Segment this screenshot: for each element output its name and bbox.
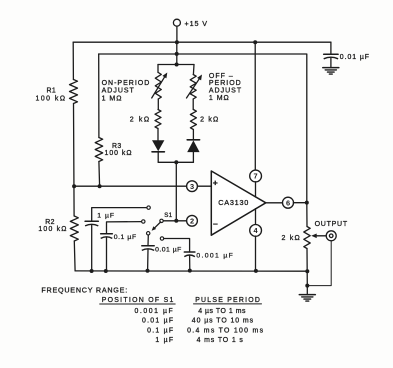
svg-text:ADJUST: ADJUST — [209, 87, 242, 94]
wire 0.01uF top — [147, 235, 149, 246]
wire left rail upper — [72, 42, 74, 79]
svg-text:R3: R3 — [112, 143, 122, 150]
wire 0.1uF — [107, 222, 142, 234]
switch contact 0.001uF — [160, 237, 163, 240]
svg-text:CA3130: CA3130 — [218, 198, 249, 207]
wire off diode lead — [192, 130, 194, 140]
wire decoupling lead — [330, 42, 332, 54]
node junction pin2-wire — [174, 219, 178, 223]
resistor R1 100k — [70, 80, 78, 104]
capacitor 0.001uF — [184, 251, 195, 253]
svg-text:S1: S1 — [164, 212, 172, 219]
node junction supply-rail — [175, 40, 179, 44]
wire decoupling gnd lead — [330, 58, 332, 67]
capacitor 0.01uF decoupling — [324, 53, 338, 55]
resistor 2k on — [155, 110, 161, 129]
wire on diode lead — [157, 129, 159, 141]
svg-text:0.01 µF: 0.01 µF — [155, 246, 182, 253]
diode CR1 down — [152, 140, 164, 151]
op-amp U1 CA3130 — [211, 171, 265, 235]
pin 2 — [187, 215, 198, 226]
wire pot feeder rail — [158, 64, 194, 66]
svg-text:6: 6 — [286, 198, 290, 207]
svg-text:100 kΩ: 100 kΩ — [38, 226, 67, 233]
svg-text:4 ms TO 1 s: 4 ms TO 1 s — [197, 337, 244, 344]
wire 0.01uF bottom — [147, 250, 149, 271]
node output-rail — [305, 269, 309, 273]
wire pin7 vertical — [254, 42, 256, 170]
svg-text:0.01 µF: 0.01 µF — [340, 54, 370, 61]
node junction pin7-rail — [253, 40, 257, 44]
wire 0.1uF bottom — [106, 238, 108, 271]
wire pin4 to body — [255, 209, 257, 225]
node junction output — [305, 201, 309, 205]
underline pulse — [194, 303, 262, 305]
wire off mid lead — [192, 99, 194, 110]
switch contact 0.01uF — [147, 232, 150, 235]
node 0.01uF-rail — [146, 269, 150, 273]
svg-text:0.1 µF: 0.1 µF — [114, 234, 137, 241]
wire center vertical to pin2 — [175, 162, 177, 221]
wire left rail middle — [73, 104, 76, 217]
pin 4 — [250, 225, 262, 237]
+15 V terminal — [173, 19, 180, 26]
svg-text:1 MΩ: 1 MΩ — [209, 95, 230, 102]
svg-text:3: 3 — [190, 182, 194, 191]
node diode junction — [174, 160, 178, 164]
wire 1uF — [92, 208, 147, 222]
capacitor 1uF — [85, 220, 98, 222]
svg-text:0.001 µF: 0.001 µF — [196, 252, 234, 259]
underline position — [100, 303, 176, 305]
svg-text:100 kΩ: 100 kΩ — [36, 96, 67, 103]
switch S1 pivot — [160, 219, 163, 222]
node junction R3-pin3wire — [98, 184, 102, 188]
svg-text:PERIOD: PERIOD — [209, 80, 242, 87]
svg-text:–: – — [213, 219, 218, 229]
diode CR2 up — [187, 139, 199, 141]
wire off diode bottom — [192, 152, 194, 162]
wire pin3 stub — [187, 185, 211, 187]
svg-text:1 MΩ: 1 MΩ — [102, 96, 123, 103]
wire 1uF bottom — [91, 225, 93, 271]
svg-text:POSITION OF S1: POSITION OF S1 — [102, 297, 175, 304]
capacitor 0.01uF — [142, 245, 154, 247]
pin 3 — [187, 181, 198, 192]
wire pot top — [306, 203, 308, 227]
wire on diode bottom — [157, 152, 159, 163]
pot OFF arrow — [187, 77, 201, 98]
wire off-pot top lead — [192, 65, 195, 75]
switch contact 0.1uF — [142, 220, 145, 223]
svg-text:PULSE PERIOD: PULSE PERIOD — [195, 297, 261, 304]
switch S1 wiper — [154, 222, 161, 229]
svg-text:0.01 µF: 0.01 µF — [142, 318, 174, 325]
svg-text:2 kΩ: 2 kΩ — [200, 117, 219, 124]
ground output — [299, 294, 315, 296]
svg-text:1 µF: 1 µF — [155, 337, 174, 344]
wire to pin 3 — [74, 185, 187, 187]
node output return — [305, 284, 309, 288]
wire left rail lower — [73, 241, 76, 271]
wire feedback rail — [99, 54, 307, 203]
svg-text:7: 7 — [254, 172, 258, 181]
svg-text:R1: R1 — [47, 88, 57, 95]
wire supply lead — [176, 26, 178, 42]
svg-text:4 µs TO 1 ms: 4 µs TO 1 ms — [198, 308, 246, 315]
switch contact 1uF — [147, 206, 150, 209]
capacitor 0.1uF — [101, 233, 113, 235]
svg-text:R2: R2 — [45, 219, 55, 226]
wire on mid lead — [157, 99, 159, 110]
wire 0.001uF bottom — [189, 256, 191, 271]
node junction pot-feeder — [175, 63, 179, 67]
wire pin6 to rail — [293, 202, 306, 204]
wire R3 branch lower — [98, 162, 101, 187]
svg-text:100 kΩ: 100 kΩ — [105, 150, 133, 157]
svg-text:+15 V: +15 V — [185, 19, 208, 28]
potentiometer OFF-period 1M — [190, 75, 196, 100]
wire pot ground lead — [306, 286, 308, 295]
svg-text:0.1 µF: 0.1 µF — [147, 327, 174, 334]
svg-text:1 µF: 1 µF — [97, 213, 115, 220]
wire on-pot top lead — [157, 65, 159, 73]
pot ON arrow — [152, 75, 166, 98]
node junction R1-R2-pin3wire — [72, 184, 76, 188]
output terminal — [326, 231, 336, 241]
wire top rail V+ — [73, 41, 331, 43]
svg-text:2: 2 — [190, 216, 194, 225]
node 0.1uF-rail — [104, 269, 108, 273]
wire pin4 vertical — [255, 236, 257, 271]
node pin4-rail — [254, 269, 258, 273]
pin 7 — [250, 170, 262, 182]
wire output return — [307, 241, 331, 286]
svg-text:FREQUENCY RANGE:: FREQUENCY RANGE: — [41, 285, 128, 294]
wire center vertical v+ — [176, 42, 178, 64]
wire pot bottom — [306, 249, 308, 286]
svg-text:+: + — [213, 178, 218, 188]
wire pin7 to body — [255, 182, 257, 197]
wire output stub — [266, 202, 283, 204]
wire R3 branch upper — [98, 54, 100, 138]
svg-text:ADJUST: ADJUST — [102, 88, 135, 95]
svg-text:2 kΩ: 2 kΩ — [130, 117, 151, 124]
node junction center-rail2 — [175, 52, 179, 56]
svg-text:2 kΩ: 2 kΩ — [282, 235, 301, 242]
potentiometer ON-period 1M — [155, 73, 161, 100]
svg-text:OFF –: OFF – — [209, 73, 234, 80]
wire ground rail — [75, 270, 307, 272]
ground decoupling — [323, 67, 339, 69]
svg-text:0.001 µF: 0.001 µF — [135, 308, 175, 315]
wire pin2 stub — [163, 220, 187, 222]
pin 6 — [283, 197, 294, 208]
svg-text:0.4 ms TO 100 ms: 0.4 ms TO 100 ms — [187, 327, 264, 334]
node 1uF-rail — [90, 269, 94, 273]
node 0.001uF-rail — [188, 269, 192, 273]
resistor R3 100k — [95, 138, 103, 162]
svg-text:40 µs TO 10 ms: 40 µs TO 10 ms — [192, 318, 254, 325]
wire diode junction — [158, 161, 193, 163]
resistor 2k off — [190, 110, 196, 130]
wire 0.001uF — [164, 239, 190, 253]
svg-text:ON-PERIOD: ON-PERIOD — [102, 80, 151, 87]
output wiper arrow — [314, 235, 326, 237]
potentiometer 2k output — [304, 227, 310, 249]
resistor R2 100k — [70, 216, 78, 241]
svg-text:OUTPUT: OUTPUT — [315, 221, 348, 228]
